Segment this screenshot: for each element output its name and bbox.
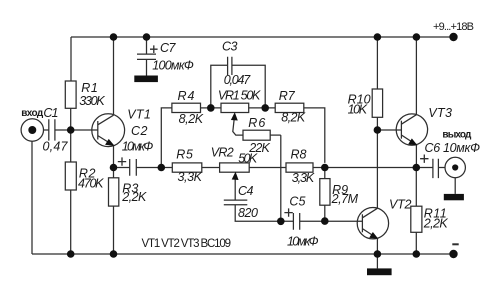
svg-text:330K: 330K xyxy=(79,94,105,108)
svg-text:VT3: VT3 xyxy=(428,106,452,120)
wire R6 down to C5 node xyxy=(280,135,282,221)
resistor R7 xyxy=(265,103,325,163)
svg-text:R8: R8 xyxy=(291,148,307,162)
svg-text:0,47: 0,47 xyxy=(43,139,69,153)
svg-text:0,047: 0,047 xyxy=(224,73,252,87)
wire node A up-branch to R4 xyxy=(161,108,172,168)
capacitor C5 xyxy=(281,208,363,229)
ground on bottom rail xyxy=(367,254,392,275)
wire VT1 emitter down xyxy=(113,145,115,167)
svg-text:50K: 50K xyxy=(238,152,258,166)
node R9/C5/VT2 base xyxy=(321,217,329,225)
node rail VT3 collector xyxy=(413,33,421,41)
svg-text:C3: C3 xyxy=(222,40,238,54)
svg-text:VR2: VR2 xyxy=(211,146,234,160)
capacitor C7 xyxy=(137,37,158,76)
VR2 wiper to C4 xyxy=(232,173,238,200)
node rail C7 xyxy=(143,33,151,41)
svg-text:8,2K: 8,2K xyxy=(281,110,306,124)
wire input shell to bottom rail xyxy=(31,141,33,254)
svg-text:C2: C2 xyxy=(131,124,148,138)
output connector (выход) xyxy=(445,157,465,177)
svg-text:R7: R7 xyxy=(279,89,296,103)
node VT3 emitter/R11/C6 xyxy=(413,164,421,172)
wire left bias column (R1/R2 chain) xyxy=(70,37,72,254)
resistor R2 xyxy=(65,162,76,190)
wire VT3 emitter to output node xyxy=(415,145,417,168)
svg-text:VT1: VT1 xyxy=(127,107,151,121)
svg-text:R4: R4 xyxy=(178,89,195,103)
node VT1 emitter / C2 xyxy=(110,164,118,172)
minus terminal mark xyxy=(452,243,458,245)
svg-text:VR1 50K: VR1 50K xyxy=(218,88,261,102)
transistor VT2 xyxy=(357,208,388,239)
svg-text:C7: C7 xyxy=(160,41,177,55)
node C VR1/C3/R7 xyxy=(261,104,269,112)
wire top positive rail xyxy=(71,36,454,38)
resistor R6 xyxy=(243,130,281,140)
capacitor C4 xyxy=(224,200,281,221)
wire VT2 emitter to rail xyxy=(376,238,378,254)
resistor R8 xyxy=(286,163,325,172)
node rail R10 xyxy=(374,33,382,41)
svg-text:2,7M: 2,7M xyxy=(331,192,359,206)
resistor R4 xyxy=(172,103,211,112)
node bottom VT2 emitter xyxy=(374,250,382,258)
terminal minus xyxy=(449,250,457,258)
capacitor C1 xyxy=(49,119,71,140)
svg-text:R1: R1 xyxy=(81,81,98,95)
ground under output connector xyxy=(444,178,464,201)
svg-text:VT1 VT2 VT3 BC109: VT1 VT2 VT3 BC109 xyxy=(142,238,232,250)
capacitor C3 xyxy=(211,57,265,108)
potentiometer VR2 xyxy=(220,163,286,172)
svg-text:820: 820 xyxy=(238,206,258,220)
node R10/VT3 base/VT2 collector xyxy=(374,126,382,134)
svg-text:C1: C1 xyxy=(43,106,58,120)
resistor R11 xyxy=(411,168,422,255)
svg-text:C4: C4 xyxy=(238,184,254,198)
node bottom R2 xyxy=(67,250,75,258)
node VT1 base xyxy=(67,126,75,134)
resistor R10 xyxy=(372,37,382,130)
svg-text:выход: выход xyxy=(442,130,472,141)
svg-text:C5: C5 xyxy=(289,194,305,208)
resistor R5 xyxy=(161,163,219,172)
svg-text:2,2K: 2,2K xyxy=(121,190,147,204)
svg-text:10мкФ: 10мкФ xyxy=(287,235,319,249)
node R8/R7/R9/feedback xyxy=(321,164,329,172)
transistor VT1 xyxy=(71,114,125,147)
svg-text:VT2: VT2 xyxy=(389,197,412,211)
svg-text:C6 10мкФ: C6 10мкФ xyxy=(425,141,481,155)
svg-text:100мкФ: 100мкФ xyxy=(152,58,194,72)
svg-text:R6: R6 xyxy=(248,116,265,130)
resistor R3 xyxy=(109,168,119,255)
potentiometer VR1 xyxy=(211,103,265,112)
VR1 wiper to R6 xyxy=(232,113,244,135)
input connector XS1 (вход) xyxy=(21,119,49,141)
svg-text:+9...+18В: +9...+18В xyxy=(433,21,474,33)
wire feedback line to output node xyxy=(325,167,417,169)
wire bottom negative rail xyxy=(32,253,454,255)
transistor VT3 xyxy=(377,114,427,145)
ground under C7 xyxy=(134,76,158,83)
capacitor C2 xyxy=(114,157,162,175)
node B R4/VR1/C3 xyxy=(207,104,215,112)
capacitor C6 xyxy=(416,155,445,179)
svg-text:3,3K: 3,3K xyxy=(178,170,203,184)
svg-text:10K: 10K xyxy=(348,103,368,117)
node bottom R11 xyxy=(413,250,421,258)
svg-text:10мкФ: 10мкФ xyxy=(122,139,154,153)
svg-text:8,2K: 8,2K xyxy=(179,112,204,126)
wire VT2 collector up to R10/VT3 base node xyxy=(376,130,378,208)
svg-text:2,2K: 2,2K xyxy=(423,216,449,230)
wire VT1 collector to rail xyxy=(113,37,115,115)
svg-text:вход: вход xyxy=(21,108,44,119)
resistor R1 xyxy=(65,81,76,108)
node R6/C4/C5 xyxy=(277,218,285,226)
node bottom R3 xyxy=(110,250,118,258)
node rail VT1 collector xyxy=(110,33,118,41)
resistor R9 xyxy=(320,168,330,222)
node A C2/R4/R5 xyxy=(158,164,166,172)
svg-text:R5: R5 xyxy=(176,148,193,162)
wire VT3 collector to rail xyxy=(415,37,417,115)
terminal +9..18V xyxy=(449,33,457,41)
svg-text:3,3K: 3,3K xyxy=(292,171,315,185)
svg-text:470K: 470K xyxy=(78,177,104,191)
